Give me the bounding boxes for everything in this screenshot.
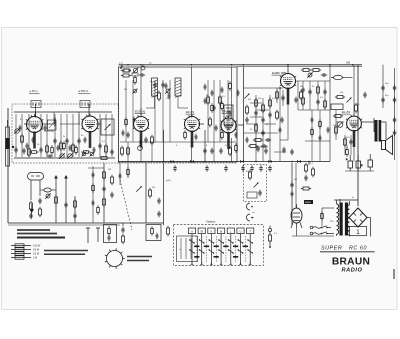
svg-text:EABC 80: EABC 80 <box>272 71 285 75</box>
wire y141 link <box>305 140 330 142</box>
capacitor C44 <box>203 148 206 154</box>
switch column 2 contacts <box>199 234 205 265</box>
wire IF column 8 <box>219 80 221 142</box>
svg-text:1/10 W: 1/10 W <box>33 246 41 248</box>
resistor R46 <box>55 195 58 205</box>
loudspeaker LS1 <box>382 136 393 155</box>
wire top of AM box <box>35 104 37 118</box>
wire det bus <box>250 87 283 89</box>
capacitor C38 <box>393 85 396 91</box>
capacitor C77 <box>165 83 168 89</box>
wire pill right down <box>39 180 41 196</box>
wire EF89 coupling <box>198 123 204 125</box>
svg-text:a 53 m: a 53 m <box>30 89 39 93</box>
switch button box 3 <box>208 228 215 234</box>
capacitor C20 <box>126 132 129 138</box>
wire ground bus bottom left <box>8 222 163 224</box>
model underline <box>320 251 375 253</box>
grid resistor R32 <box>335 125 338 135</box>
resistor R40 <box>103 170 106 180</box>
switch separator 4 <box>225 236 227 262</box>
wire IF column 6 <box>207 80 209 142</box>
dashed enclosure AM tuner box <box>12 104 119 163</box>
resistor R56 <box>134 75 137 84</box>
socket caption line 2 <box>127 260 149 262</box>
svg-text:2k: 2k <box>63 136 65 138</box>
resistor R3 <box>46 144 49 154</box>
wire vertical x146 <box>145 163 147 223</box>
wire AM column 11 <box>99 114 101 157</box>
tube V6 EABC80 <box>280 71 296 105</box>
wire top-right bus A <box>297 81 299 110</box>
capacitor C18 <box>214 125 217 131</box>
capacitor C91 <box>92 200 95 206</box>
wire OT to speaker <box>381 121 386 123</box>
wire top-right bus B <box>298 109 330 111</box>
top corner cluster <box>121 65 123 67</box>
wire IF box verticals <box>140 67 142 115</box>
mains plug prongs <box>310 226 321 235</box>
capacitor C68 <box>108 235 111 241</box>
svg-text:2M: 2M <box>108 169 111 171</box>
resistor R17 <box>269 98 272 108</box>
capacitor C54 <box>241 165 244 171</box>
tube V4 EF89 <box>184 114 200 148</box>
osc coil box <box>48 120 57 130</box>
IF transformer T2 core <box>226 107 231 109</box>
capacitor C24 <box>261 130 264 136</box>
cathode capacitor C37 <box>349 139 352 145</box>
junction dots lower <box>163 161 165 163</box>
resistor R60 <box>311 127 314 136</box>
socket caption line 1 <box>127 256 152 258</box>
resistor R37 <box>229 146 232 156</box>
capacitor C47 <box>256 146 259 152</box>
wire AM column 4 <box>40 114 42 157</box>
wire audio link <box>296 80 331 82</box>
capacitor C49 <box>282 147 285 153</box>
wire IF lower links <box>127 142 129 162</box>
label EM84 on dark tag <box>304 200 313 204</box>
legend resistor symbol 3 <box>11 252 31 255</box>
power transformer T4 core <box>340 203 349 236</box>
fuse box with 1 <box>350 227 367 236</box>
resistor R66 <box>235 143 238 152</box>
capacitor C41 <box>393 130 396 136</box>
capacitor C19 <box>144 137 147 143</box>
resistor R16 <box>262 103 265 113</box>
resistor R25 <box>302 96 305 106</box>
trimmer capacitor C79 <box>133 89 138 94</box>
tube V1 mixer <box>26 114 43 149</box>
resistor R31 <box>355 103 358 113</box>
wire rectifier to fuse <box>357 226 359 229</box>
wire under tubes <box>140 136 142 162</box>
wire el84 cathode net <box>346 145 348 150</box>
capacitor C1 <box>14 147 17 153</box>
phono jack J2 <box>247 214 253 221</box>
power transformer T4 secondary winding <box>347 201 349 237</box>
AM box bottom parts <box>29 151 38 154</box>
wire x330 drop <box>329 65 331 162</box>
mains switch S1 <box>321 226 328 235</box>
fuse oval F2 <box>42 188 54 192</box>
svg-text:1/2 W: 1/2 W <box>33 254 40 256</box>
trimmer capacitor C8 <box>59 153 65 159</box>
capacitor C82 <box>204 98 207 104</box>
resistor R28 <box>335 96 345 99</box>
svg-text:EL 84: EL 84 <box>342 110 350 114</box>
legend resistor symbol 2 <box>11 248 31 251</box>
capacitor C51 <box>173 165 176 171</box>
capacitor C63 <box>38 198 41 204</box>
resistor R52 <box>305 163 308 173</box>
resistor R12 <box>219 95 222 105</box>
more AM bottom parts <box>26 143 29 149</box>
bowtie contact extra <box>170 160 173 163</box>
capacitor C28 <box>294 97 297 103</box>
capacitor C94 <box>119 173 122 179</box>
resistor R23 <box>301 69 311 72</box>
resistor R67 <box>127 167 130 176</box>
wire vertical x205 <box>204 130 206 162</box>
trimmer capacitor C12 <box>133 68 139 74</box>
ground bus echo <box>8 224 120 226</box>
capacitor C88 <box>327 127 330 133</box>
output transformer T3 primary <box>375 120 378 142</box>
wire EABC column <box>287 100 289 140</box>
wire tone area <box>344 135 346 155</box>
wire x93 column <box>92 166 94 223</box>
svg-text:1M: 1M <box>300 86 303 88</box>
wire IF column 5 <box>169 80 171 142</box>
trimmer capacitor C66 <box>45 193 50 198</box>
svg-text:BRAUN: BRAUN <box>332 257 370 268</box>
capacitor C14 <box>153 82 156 88</box>
dashed pickup preamp box <box>244 165 267 202</box>
wire detector columns <box>255 95 257 162</box>
wire x292 drop <box>291 163 293 225</box>
capacitor C36 <box>363 92 366 98</box>
capacitor C70 <box>156 233 159 239</box>
capacitor C73 <box>381 85 384 91</box>
capacitor C39 <box>393 97 396 103</box>
resistor R39 box <box>247 192 257 198</box>
switch separator 6 <box>244 236 246 262</box>
wire V1 grid <box>24 123 29 125</box>
resistor R48 <box>108 226 111 235</box>
wire AM column 9 <box>72 114 74 157</box>
capacitor C58 <box>258 190 261 196</box>
svg-text:Tastatur: Tastatur <box>206 220 215 224</box>
wire x128 stub <box>127 163 129 178</box>
capacitor C74 <box>381 97 384 103</box>
wire AM column 12 <box>105 114 107 157</box>
trimmer capacitor C16 <box>165 88 170 93</box>
wire det bus 2 <box>244 132 279 134</box>
wire EL84 cathode drop <box>353 131 355 162</box>
wire rail second segment <box>237 66 362 68</box>
wire right rail <box>394 68 396 160</box>
resistor R62 <box>321 211 324 220</box>
svg-text:10k: 10k <box>258 98 261 100</box>
capacitor C45 <box>210 148 213 154</box>
wire x280 drop <box>279 88 281 162</box>
svg-text:[mF]: [mF] <box>166 180 171 182</box>
capacitor C80 <box>204 84 207 90</box>
svg-text:1/4 W: 1/4 W <box>33 250 40 252</box>
IF transformer T1 box <box>101 119 114 135</box>
trimmer capacitor C3 <box>14 128 20 134</box>
resistor R29 box <box>331 104 343 110</box>
capacitor C93 <box>246 137 249 143</box>
svg-text:2M: 2M <box>248 99 251 101</box>
svg-text:1k: 1k <box>206 95 208 97</box>
legend resistor symbol 4 <box>11 256 31 259</box>
resistor R27 <box>324 99 327 109</box>
resistor R15 <box>255 98 258 108</box>
wire ECH81 anode up <box>140 108 142 115</box>
switch column 1 contacts <box>189 234 195 265</box>
resistor R26 <box>317 85 320 95</box>
wire x383 rail <box>382 65 384 108</box>
tube V3 ECH81 <box>133 114 149 148</box>
resistor R43 <box>149 188 152 198</box>
capacitor C60 <box>110 192 113 198</box>
wire IF column 1 <box>125 80 127 142</box>
resistor R54 <box>276 110 279 120</box>
legend text line 1 <box>17 229 50 231</box>
capacitor C89 <box>291 191 294 197</box>
pointer wire with arrow <box>86 228 90 244</box>
bank ground feet <box>191 264 194 266</box>
resistor R14 <box>151 135 154 145</box>
capacitor C61 <box>157 198 160 204</box>
resistor R18 <box>255 123 258 133</box>
wire L2 to ECH81 <box>154 96 156 108</box>
resistor R58 <box>229 81 232 90</box>
antenna arrow 2 <box>64 175 68 223</box>
wire IF box inner bus <box>120 141 236 143</box>
detector diode load R21 <box>276 90 279 100</box>
capacitor C32 <box>308 89 311 95</box>
wire secondary link <box>349 217 351 219</box>
svg-text:5n: 5n <box>312 86 314 88</box>
wire EF85 coupling <box>238 124 244 126</box>
wire AM box top bus <box>14 111 112 113</box>
capacitor C86 <box>311 117 314 123</box>
resistor R44 <box>30 201 33 211</box>
svg-text:ECH 81: ECH 81 <box>135 110 146 114</box>
solid enclosure FM/IF box <box>119 67 238 162</box>
wire EM84 bottom <box>296 228 298 236</box>
bank second row marks <box>194 256 199 258</box>
capacitor C65 <box>64 202 67 208</box>
switch separator 2 <box>206 236 208 262</box>
capacitor C92 <box>279 127 282 133</box>
wire lamp link <box>40 189 42 191</box>
dial scale lamp pill <box>28 173 44 181</box>
wire AM column 5 <box>46 114 48 157</box>
capacitor C72 <box>304 175 307 181</box>
resistor R49 <box>122 234 125 244</box>
potentiometer P3 <box>138 140 143 150</box>
svg-text:SUPER: SUPER <box>321 246 342 252</box>
capacitor C10 <box>98 143 101 149</box>
capacitor C75 <box>280 117 283 123</box>
capacitor C2 <box>22 148 25 154</box>
capacitor C27 <box>281 95 284 101</box>
wire AM column 7 <box>60 114 62 157</box>
phono jack J1 <box>247 203 253 210</box>
capacitor C71 <box>290 182 293 188</box>
wire IF column 7 <box>213 80 215 142</box>
switch separator 1 <box>196 236 198 262</box>
capacitor C64 <box>29 213 32 219</box>
resistor R59 <box>221 101 224 110</box>
wire vertical x104 <box>103 163 105 223</box>
tone potentiometer P2 <box>347 98 352 103</box>
capacitor C21 <box>254 110 257 116</box>
wire x312 drop <box>311 110 313 162</box>
switch separator 3 <box>215 236 217 262</box>
resistor R7 <box>99 157 109 160</box>
wire EM84 twin vertical <box>295 163 297 207</box>
capacitor C56 <box>259 165 262 171</box>
wire B+ top rail <box>119 64 363 66</box>
magic eye EM84 envelope <box>291 204 302 228</box>
resistor R4 <box>60 141 63 151</box>
svg-text:a 850 m: a 850 m <box>79 89 89 93</box>
capacitor C22 <box>261 117 264 123</box>
wire AM column 2 <box>21 114 23 157</box>
switch contact on rail 2 <box>240 160 244 164</box>
resistor R47 <box>74 199 77 209</box>
capacitor C87 <box>319 135 322 141</box>
resistor R10 <box>158 91 161 101</box>
capacitor C69 <box>121 227 124 233</box>
capacitor C33 <box>316 99 319 105</box>
trimmer capacitor C9 <box>67 153 73 159</box>
wire top-right columns <box>302 81 304 110</box>
svg-text:RC 60: RC 60 <box>349 246 367 252</box>
tube V5 EF85 <box>220 116 236 150</box>
potentiometer P4 <box>254 183 259 188</box>
wire V2 top feed <box>88 104 90 117</box>
wire AM box bottom bus <box>14 157 115 159</box>
bank inner row marks <box>194 246 199 248</box>
svg-text:1M: 1M <box>124 89 127 91</box>
EF89 bias parts <box>184 130 187 139</box>
svg-text:EF 85: EF 85 <box>222 110 230 114</box>
antenna coil box 2 <box>80 101 90 108</box>
antenna coil box 1 <box>31 101 41 108</box>
wire detector h-links <box>250 102 262 104</box>
wire EABC80 cathode down <box>287 89 289 101</box>
capacitor C23 <box>268 112 271 118</box>
capacitor C6 <box>65 138 68 144</box>
svg-text:1: 1 <box>356 229 360 236</box>
tube V2 IF amp <box>81 114 98 149</box>
capacitor C15 <box>161 82 164 88</box>
trimmer capacitor C29 <box>307 72 312 77</box>
wire V2 anode to T1 <box>96 123 101 125</box>
junction dot x280 <box>279 87 281 89</box>
switch bank left sub-box <box>177 236 198 262</box>
switch column 3 contacts <box>209 234 215 265</box>
capacitor C81 <box>211 90 214 96</box>
resistor R6 <box>105 144 108 154</box>
capacitor C7 <box>77 138 80 144</box>
capacitor C40 <box>393 117 396 123</box>
power transformer T4 primary winding <box>337 200 339 236</box>
capacitor C17 <box>212 105 215 111</box>
wire V1 top <box>35 112 37 118</box>
resistor R30 <box>333 115 343 118</box>
negative feedback resistor R34 <box>346 147 349 156</box>
capacitor C53 <box>224 165 227 171</box>
switch column 4 contacts <box>218 234 224 265</box>
IF coil L3 hatched <box>175 78 181 98</box>
resistor R20 <box>248 145 258 148</box>
capacitor C5 <box>53 138 56 144</box>
resistor R42 <box>111 175 114 185</box>
filter cap bus <box>345 170 374 172</box>
wire EABC80 top <box>287 65 289 71</box>
wire EL84 top <box>353 65 355 116</box>
switch button box 2 <box>198 228 205 234</box>
wire x75 drop <box>74 196 76 223</box>
resistor R22 <box>300 90 303 100</box>
legend resistor symbol 1 <box>11 244 31 247</box>
svg-text:1M: 1M <box>152 187 155 189</box>
svg-text:U: U <box>240 230 242 233</box>
tube V7 EL84 <box>346 114 362 147</box>
wire B+ rail drop to rectifier <box>357 65 359 206</box>
tone capacitor C42 <box>346 155 353 171</box>
wire AM column 10 <box>78 114 80 157</box>
resistor R13 <box>209 117 212 127</box>
capacitor C46 <box>219 148 222 154</box>
svg-text:1M: 1M <box>294 179 297 181</box>
switch button box 6 <box>237 228 244 234</box>
resistor R9 <box>121 74 131 77</box>
capacitor C48 <box>264 148 267 154</box>
resistor R64 <box>92 183 95 192</box>
wire oval cap link <box>345 77 353 79</box>
potentiometer P5 <box>136 186 142 192</box>
wire mains to transformer <box>328 227 332 229</box>
wire vertical x243 <box>243 67 245 162</box>
legend text line 3 <box>17 237 65 239</box>
resistor R41 <box>103 197 106 207</box>
capacitor C25 <box>265 138 271 141</box>
capacitor C13 <box>139 73 145 76</box>
wire y168 link <box>88 167 104 169</box>
wire IF column 2 <box>132 80 134 142</box>
wire bus drop x123 <box>122 223 124 226</box>
detector extra links <box>244 87 251 89</box>
svg-text:TA: TA <box>200 230 203 233</box>
wire pill left down <box>30 180 32 200</box>
switch column 5 contacts <box>228 234 234 265</box>
resistor R38 <box>249 170 252 180</box>
tube socket bottom view <box>105 248 125 268</box>
switch separator 5 <box>235 236 237 262</box>
coupling capacitor C35 oval <box>331 75 345 79</box>
switch column 6 contacts <box>238 234 244 265</box>
wire L3 to EF89 <box>177 96 179 108</box>
